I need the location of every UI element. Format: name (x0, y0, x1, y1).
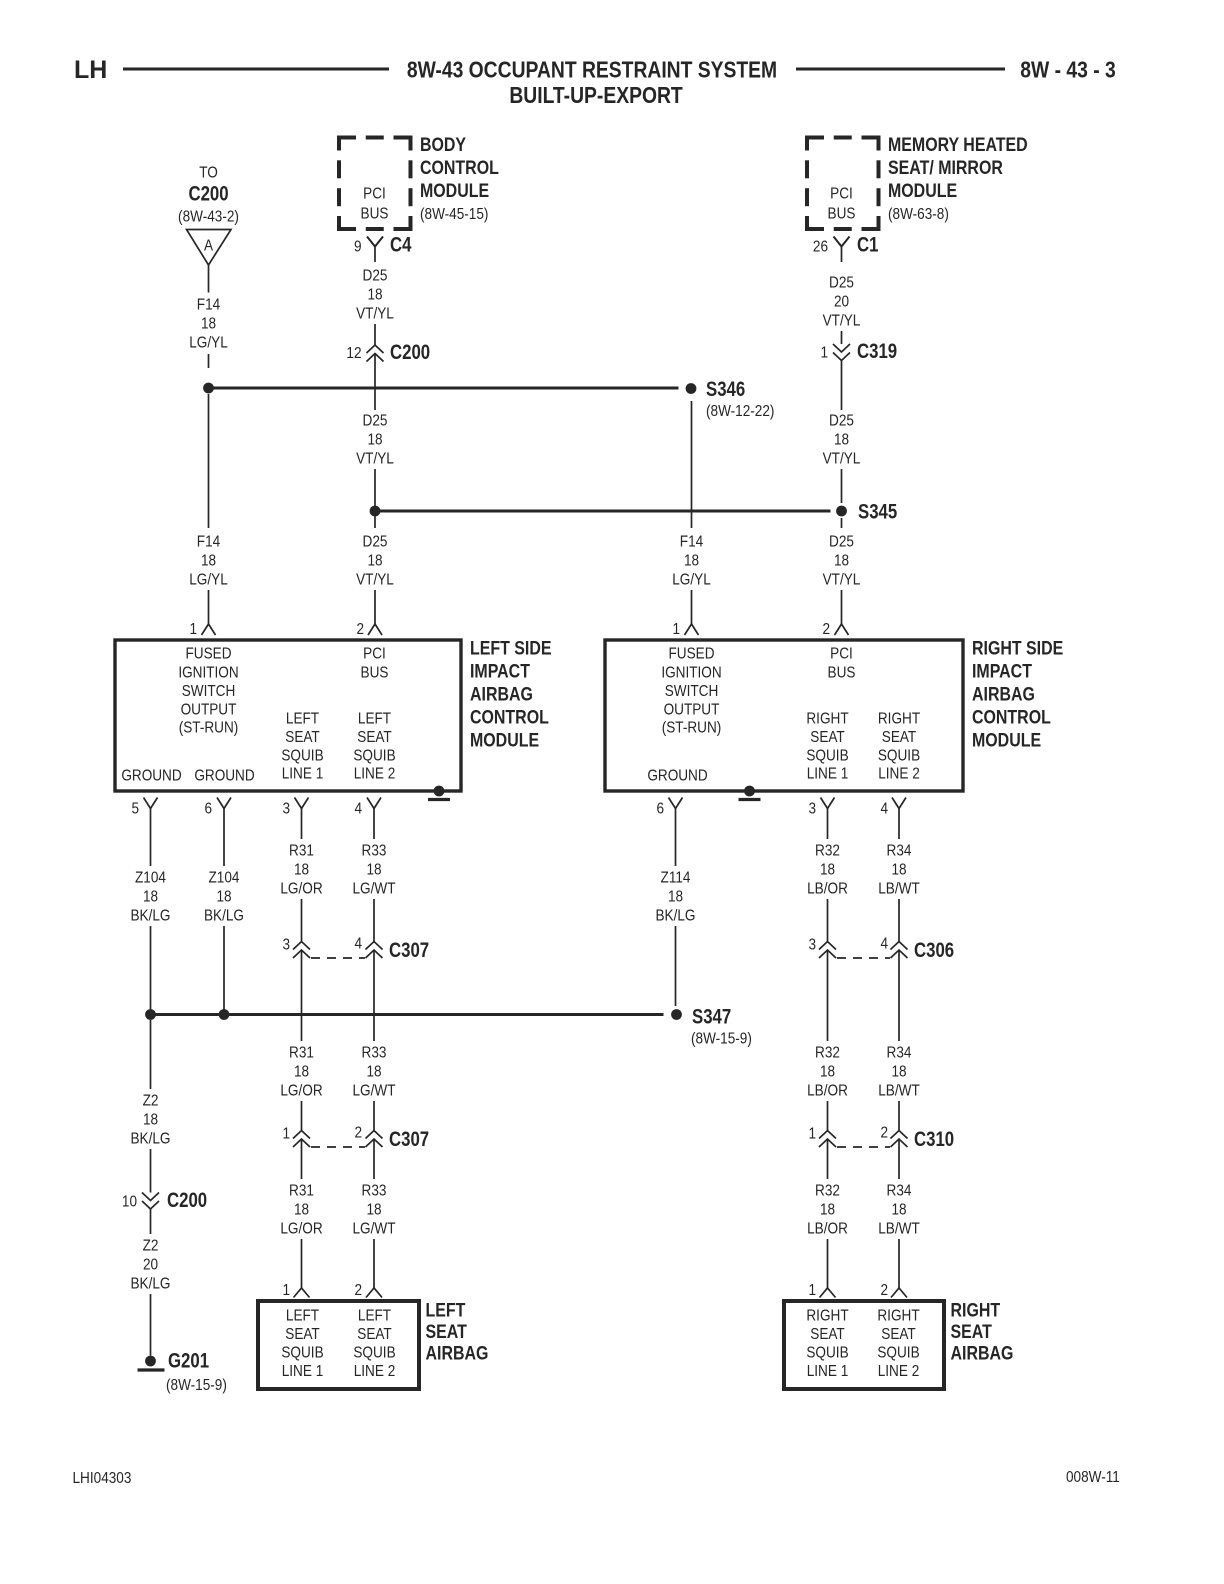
svg-text:RIGHT: RIGHT (806, 1308, 848, 1325)
svg-text:OUTPUT: OUTPUT (664, 702, 720, 719)
svg-text:LB/OR: LB/OR (807, 881, 848, 898)
svg-text:SEAT: SEAT (881, 1326, 915, 1343)
svg-text:LG/OR: LG/OR (280, 1083, 323, 1100)
svg-text:LG/OR: LG/OR (280, 1221, 323, 1238)
svg-text:1: 1 (282, 1282, 290, 1299)
svg-text:SQUIB: SQUIB (877, 1345, 919, 1362)
svg-text:VT/YL: VT/YL (356, 306, 394, 323)
svg-text:18: 18 (143, 889, 158, 906)
svg-text:R32: R32 (815, 1183, 840, 1200)
pin 2 right seat airbag (891, 1288, 907, 1298)
wire R34 18 LB/WT lower (898, 1139, 900, 1179)
svg-text:2: 2 (356, 621, 364, 638)
svg-text:SWITCH: SWITCH (665, 683, 719, 700)
svg-text:Z104: Z104 (209, 870, 240, 887)
ground symbol inside left module (434, 786, 445, 797)
off-page connector A triangle (187, 230, 232, 266)
svg-text:2: 2 (880, 1282, 888, 1299)
svg-text:SQUIB: SQUIB (353, 1345, 395, 1362)
svg-text:R32: R32 (815, 843, 840, 860)
svg-text:C200: C200 (390, 341, 430, 364)
svg-text:LINE 2: LINE 2 (354, 1363, 396, 1380)
svg-text:LB/WT: LB/WT (878, 1083, 920, 1100)
svg-text:SQUIB: SQUIB (806, 1345, 848, 1362)
svg-text:C1: C1 (857, 234, 879, 257)
ground symbol inside right module (744, 786, 755, 797)
splice junction Z104 pin5 (145, 1009, 156, 1020)
svg-text:SQUIB: SQUIB (281, 1345, 323, 1362)
svg-text:6: 6 (204, 801, 212, 818)
svg-text:MODULE: MODULE (420, 180, 489, 202)
svg-text:4: 4 (354, 801, 362, 818)
svg-text:008W-11: 008W-11 (1066, 1469, 1120, 1486)
wire R32 18 LB/OR lower (827, 1139, 829, 1179)
pin 2 left module (368, 624, 382, 635)
pin 2 right module (835, 624, 849, 635)
svg-text:F14: F14 (680, 534, 703, 551)
svg-text:LINE 1: LINE 1 (807, 1363, 849, 1380)
ground G201 (145, 1356, 156, 1367)
svg-text:AIRBAG: AIRBAG (972, 683, 1035, 705)
wire Z2 20 BK/LG (150, 1209, 152, 1234)
svg-text:SWITCH: SWITCH (182, 683, 236, 700)
svg-text:18: 18 (366, 1202, 381, 1219)
svg-text:SQUIB: SQUIB (353, 748, 395, 765)
svg-text:VT/YL: VT/YL (823, 451, 861, 468)
svg-text:TO: TO (199, 165, 218, 182)
svg-text:LINE 1: LINE 1 (282, 1363, 324, 1380)
svg-text:AIRBAG: AIRBAG (470, 683, 533, 705)
svg-text:26: 26 (813, 239, 828, 256)
svg-text:18: 18 (820, 1064, 835, 1081)
wire Z104 18 BK/LG pin5 (150, 809, 152, 867)
svg-text:AIRBAG: AIRBAG (426, 1342, 489, 1364)
connector C307 pins 1 and 2 (293, 1131, 310, 1148)
wire F14 18 LG/YL upper segment (208, 265, 210, 293)
right side impact airbag control module box (605, 640, 963, 791)
svg-text:BODY: BODY (420, 134, 466, 156)
svg-text:VT/YL: VT/YL (356, 451, 394, 468)
svg-text:S345: S345 (858, 501, 898, 524)
wire R31 18 LG/OR middle (301, 950, 303, 1041)
svg-text:LG/YL: LG/YL (189, 572, 228, 589)
svg-text:3: 3 (808, 937, 816, 954)
svg-text:FUSED: FUSED (668, 646, 714, 663)
svg-text:BK/LG: BK/LG (204, 908, 244, 925)
svg-text:F14: F14 (197, 297, 220, 314)
wire R33 18 LG/WT upper (373, 809, 375, 840)
svg-text:D25: D25 (829, 413, 854, 430)
svg-text:18: 18 (820, 862, 835, 879)
svg-text:Z2: Z2 (143, 1238, 159, 1255)
splice junction Z104 pin6 (219, 1009, 230, 1020)
svg-text:RIGHT: RIGHT (951, 1299, 1001, 1321)
svg-text:IGNITION: IGNITION (178, 665, 238, 682)
svg-text:4: 4 (880, 936, 888, 953)
svg-text:9: 9 (354, 239, 362, 256)
svg-text:RIGHT: RIGHT (806, 711, 848, 728)
svg-text:VT/YL: VT/YL (356, 572, 394, 589)
svg-text:8W-43 OCCUPANT RESTRAINT SYSTE: 8W-43 OCCUPANT RESTRAINT SYSTEM (407, 58, 777, 83)
svg-text:R34: R34 (887, 843, 912, 860)
svg-text:PCI: PCI (830, 646, 853, 663)
svg-text:2: 2 (354, 1125, 362, 1142)
svg-text:SEAT: SEAT (810, 729, 844, 746)
connector C1 pin 26 (834, 237, 850, 247)
body control module dashed box (339, 138, 356, 151)
wire R32 18 LB/OR upper (827, 809, 829, 840)
svg-text:LG/YL: LG/YL (189, 335, 228, 352)
svg-text:AIRBAG: AIRBAG (951, 1342, 1014, 1364)
svg-text:18: 18 (294, 1064, 309, 1081)
svg-text:RIGHT: RIGHT (878, 711, 920, 728)
svg-text:C306: C306 (914, 939, 954, 962)
svg-text:LEFT SIDE: LEFT SIDE (470, 637, 552, 659)
svg-text:MODULE: MODULE (888, 180, 957, 202)
svg-text:C310: C310 (914, 1128, 954, 1151)
svg-text:18: 18 (294, 862, 309, 879)
svg-text:Z2: Z2 (143, 1093, 159, 1110)
splice S345 (836, 506, 847, 517)
svg-text:1: 1 (282, 1126, 290, 1143)
connector C200 pin 12 (367, 345, 384, 362)
svg-text:LH: LH (74, 56, 107, 84)
svg-text:R31: R31 (289, 1183, 314, 1200)
svg-text:LB/WT: LB/WT (878, 1221, 920, 1238)
svg-text:(ST-RUN): (ST-RUN) (662, 720, 722, 737)
svg-text:VT/YL: VT/YL (823, 313, 861, 330)
svg-text:1: 1 (189, 621, 197, 638)
svg-text:D25: D25 (363, 413, 388, 430)
svg-text:8W - 43 - 3: 8W - 43 - 3 (1020, 58, 1116, 83)
pin 1 right module (685, 624, 699, 635)
svg-text:SEAT: SEAT (951, 1321, 993, 1343)
svg-text:18: 18 (891, 1202, 906, 1219)
svg-text:LEFT: LEFT (358, 711, 391, 728)
pin 1 right seat airbag (820, 1288, 836, 1298)
svg-text:LG/OR: LG/OR (280, 881, 323, 898)
svg-text:MODULE: MODULE (470, 729, 539, 751)
wire D25 18 VT/YL down to right module pin 2 (841, 518, 843, 528)
wire D25 18 VT/YL down to module pin 2 (374, 516, 376, 528)
svg-text:LG/YL: LG/YL (672, 572, 711, 589)
svg-text:IMPACT: IMPACT (972, 660, 1032, 682)
svg-text:Z104: Z104 (135, 870, 166, 887)
svg-text:18: 18 (216, 889, 231, 906)
svg-text:D25: D25 (829, 275, 854, 292)
svg-text:20: 20 (143, 1257, 158, 1274)
svg-text:F14: F14 (197, 534, 220, 551)
svg-text:A: A (204, 238, 213, 255)
svg-text:2: 2 (880, 1125, 888, 1142)
svg-text:3: 3 (282, 937, 290, 954)
svg-text:OUTPUT: OUTPUT (181, 702, 237, 719)
svg-text:D25: D25 (363, 534, 388, 551)
svg-text:PCI: PCI (363, 646, 386, 663)
svg-text:CONTROL: CONTROL (470, 706, 549, 728)
svg-text:C307: C307 (389, 1128, 429, 1151)
svg-text:SEAT: SEAT (882, 729, 916, 746)
svg-text:LEFT: LEFT (358, 1308, 391, 1325)
svg-text:G201: G201 (168, 1350, 209, 1373)
svg-text:18: 18 (367, 287, 382, 304)
connector C306 pins 3 and 4 (819, 942, 836, 959)
svg-text:SQUIB: SQUIB (806, 748, 848, 765)
svg-text:R31: R31 (289, 843, 314, 860)
svg-text:C200: C200 (167, 1189, 207, 1212)
connector C319 pin 1 (833, 344, 850, 361)
svg-text:LEFT: LEFT (286, 711, 319, 728)
svg-text:LINE 2: LINE 2 (878, 766, 920, 783)
wire D25 18 VT/YL to S345 (374, 353, 376, 410)
header rule right (796, 68, 1005, 71)
svg-text:S347: S347 (692, 1006, 731, 1029)
svg-text:BUS: BUS (828, 665, 856, 682)
svg-text:LINE 2: LINE 2 (354, 766, 396, 783)
header rule left (123, 68, 389, 71)
svg-text:R34: R34 (887, 1045, 912, 1062)
svg-text:SQUIB: SQUIB (878, 748, 920, 765)
svg-text:(8W-43-2): (8W-43-2) (178, 209, 239, 226)
left side impact airbag control module box (115, 640, 461, 791)
wire F14 18 LG/YL from S346 to right module (691, 401, 693, 528)
wire F14 down to module (208, 394, 210, 528)
svg-text:4: 4 (880, 801, 888, 818)
svg-text:LEFT: LEFT (426, 1299, 466, 1321)
svg-text:Z114: Z114 (661, 870, 691, 887)
svg-text:18: 18 (143, 1112, 158, 1129)
wire R34 18 LB/WT middle (898, 950, 900, 1041)
svg-text:18: 18 (891, 1064, 906, 1081)
svg-text:BK/LG: BK/LG (130, 1276, 170, 1293)
svg-text:PCI: PCI (363, 186, 386, 203)
svg-text:D25: D25 (829, 534, 854, 551)
svg-text:GROUND: GROUND (121, 768, 181, 785)
svg-text:10: 10 (122, 1194, 137, 1211)
connector C307 pins 3 and 4 (293, 942, 310, 959)
svg-text:SEAT: SEAT (285, 729, 319, 746)
svg-text:D25: D25 (363, 268, 388, 285)
svg-text:18: 18 (820, 1202, 835, 1219)
svg-text:(8W-63-8): (8W-63-8) (888, 206, 949, 223)
svg-text:SEAT/ MIRROR: SEAT/ MIRROR (888, 157, 1003, 179)
svg-text:18: 18 (834, 432, 849, 449)
svg-text:18: 18 (201, 553, 216, 570)
svg-text:RIGHT: RIGHT (877, 1308, 919, 1325)
wire splice bus S347 (151, 1013, 664, 1016)
svg-text:R33: R33 (362, 1045, 387, 1062)
svg-text:LG/WT: LG/WT (352, 881, 395, 898)
wire Z114 18 BK/LG (675, 809, 677, 867)
svg-text:IMPACT: IMPACT (470, 660, 530, 682)
svg-text:FUSED: FUSED (185, 646, 231, 663)
splice junction on S346 bus, left (203, 383, 214, 394)
svg-text:R33: R33 (362, 1183, 387, 1200)
svg-text:LINE 2: LINE 2 (878, 1363, 920, 1380)
svg-text:1: 1 (808, 1126, 816, 1143)
wire splice bus S345 (375, 510, 831, 513)
svg-text:18: 18 (367, 432, 382, 449)
svg-text:3: 3 (808, 801, 816, 818)
svg-text:BK/LG: BK/LG (130, 1131, 170, 1148)
svg-text:4: 4 (354, 936, 362, 953)
pin 1 left seat airbag (294, 1288, 310, 1298)
right seat airbag box (784, 1301, 944, 1389)
wire R34 18 LB/WT upper (898, 809, 900, 840)
svg-text:LB/OR: LB/OR (807, 1083, 848, 1100)
svg-text:LB/WT: LB/WT (878, 881, 920, 898)
svg-text:18: 18 (684, 553, 699, 570)
svg-text:20: 20 (834, 294, 849, 311)
svg-text:1: 1 (820, 345, 828, 362)
svg-text:C319: C319 (857, 340, 897, 363)
svg-text:SEAT: SEAT (810, 1326, 844, 1343)
svg-text:1: 1 (808, 1282, 816, 1299)
svg-text:18: 18 (668, 889, 683, 906)
svg-text:R34: R34 (887, 1183, 912, 1200)
svg-text:C4: C4 (390, 234, 412, 257)
svg-text:2: 2 (822, 621, 830, 638)
svg-text:LHI04303: LHI04303 (73, 1470, 132, 1487)
connector C200 pin 10 (142, 1193, 159, 1210)
svg-text:SEAT: SEAT (357, 729, 391, 746)
svg-text:MODULE: MODULE (972, 729, 1041, 751)
svg-text:R31: R31 (289, 1045, 314, 1062)
svg-text:18: 18 (201, 316, 216, 333)
splice junction on S345 bus, left (370, 506, 381, 517)
svg-text:LG/WT: LG/WT (352, 1083, 395, 1100)
wire D25 18 VT/YL to S345 (841, 361, 843, 411)
svg-text:BK/LG: BK/LG (130, 908, 170, 925)
svg-text:MEMORY HEATED: MEMORY HEATED (888, 134, 1028, 156)
svg-text:SEAT: SEAT (357, 1326, 391, 1343)
svg-text:SQUIB: SQUIB (281, 748, 323, 765)
wire R32 18 LB/OR middle (827, 950, 829, 1041)
svg-text:R32: R32 (815, 1045, 840, 1062)
pin 2 left seat airbag (366, 1288, 382, 1298)
svg-text:GROUND: GROUND (647, 768, 707, 785)
svg-text:12: 12 (346, 345, 361, 362)
svg-text:S346: S346 (706, 378, 745, 401)
wire R31 18 LG/OR lower (301, 1139, 303, 1179)
splice S347 (671, 1009, 682, 1020)
wire splice bus S346 (209, 387, 679, 390)
svg-text:LINE 1: LINE 1 (807, 766, 849, 783)
svg-text:6: 6 (656, 801, 664, 818)
svg-text:18: 18 (294, 1202, 309, 1219)
svg-text:18: 18 (366, 862, 381, 879)
wire Z2 18 BK/LG (150, 1020, 152, 1089)
svg-text:LG/WT: LG/WT (352, 1221, 395, 1238)
wire R33 18 LG/WT middle (373, 950, 375, 1041)
svg-text:RIGHT SIDE: RIGHT SIDE (972, 637, 1064, 659)
svg-text:(8W-12-22): (8W-12-22) (706, 403, 774, 420)
svg-text:IGNITION: IGNITION (661, 665, 721, 682)
svg-text:LEFT: LEFT (286, 1308, 319, 1325)
svg-text:(8W-45-15): (8W-45-15) (420, 206, 488, 223)
svg-text:C307: C307 (389, 939, 429, 962)
svg-text:2: 2 (354, 1282, 362, 1299)
svg-text:CONTROL: CONTROL (972, 706, 1051, 728)
svg-text:BUS: BUS (828, 206, 856, 223)
svg-text:CONTROL: CONTROL (420, 157, 499, 179)
wire R33 18 LG/WT lower (373, 1139, 375, 1179)
svg-text:18: 18 (891, 862, 906, 879)
svg-text:R33: R33 (362, 843, 387, 860)
svg-text:18: 18 (367, 553, 382, 570)
svg-text:GROUND: GROUND (194, 768, 254, 785)
svg-text:C200: C200 (188, 183, 228, 206)
svg-text:3: 3 (282, 801, 290, 818)
svg-text:5: 5 (131, 801, 139, 818)
wire Z104 18 BK/LG pin6 (223, 809, 225, 867)
svg-text:1: 1 (672, 621, 680, 638)
connector C4 pin 9 (367, 237, 383, 247)
svg-text:SEAT: SEAT (426, 1321, 468, 1343)
connector C310 pins 1 and 2 (819, 1131, 836, 1148)
splice S346 (686, 383, 697, 394)
memory heated seat/mirror module dashed box (807, 138, 824, 151)
svg-text:BK/LG: BK/LG (655, 908, 695, 925)
svg-text:PCI: PCI (830, 186, 853, 203)
svg-text:(8W-15-9): (8W-15-9) (166, 1377, 227, 1394)
svg-text:BUS: BUS (361, 206, 389, 223)
svg-text:18: 18 (834, 553, 849, 570)
wire R31 18 LG/OR upper (301, 809, 303, 840)
svg-text:LB/OR: LB/OR (807, 1221, 848, 1238)
svg-text:(ST-RUN): (ST-RUN) (179, 720, 239, 737)
svg-text:BUS: BUS (361, 665, 389, 682)
svg-text:(8W-15-9): (8W-15-9) (691, 1031, 752, 1048)
pin 1 left module (202, 624, 216, 635)
svg-text:18: 18 (366, 1064, 381, 1081)
svg-text:SEAT: SEAT (285, 1326, 319, 1343)
left seat airbag box (258, 1301, 419, 1389)
svg-text:BUILT-UP-EXPORT: BUILT-UP-EXPORT (509, 84, 682, 109)
svg-text:VT/YL: VT/YL (823, 572, 861, 589)
svg-text:LINE 1: LINE 1 (282, 766, 324, 783)
